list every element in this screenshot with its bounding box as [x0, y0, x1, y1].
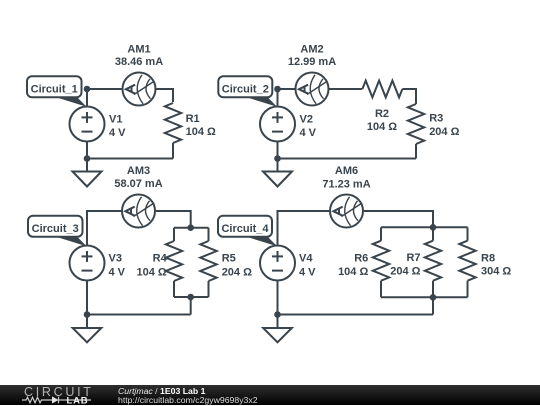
svg-text:104 Ω: 104 Ω: [136, 267, 166, 279]
svg-text:AM2: AM2: [300, 44, 323, 56]
resistor R6: [373, 241, 389, 281]
wire: R1 bottom lead: [172, 143, 174, 159]
ground: circuit 1: [73, 159, 102, 187]
svg-text:104 Ω: 104 Ω: [338, 266, 368, 278]
voltage source V4: [260, 246, 295, 281]
svg-text:AM6: AM6: [335, 165, 358, 177]
wire: C2 node down to V2 top: [277, 89, 279, 107]
wire: R5 bottom lead: [208, 281, 210, 297]
svg-text:LAB: LAB: [67, 396, 89, 405]
junction node: C3 bottom left: [84, 311, 91, 318]
ammeter AM3 A glyph: [126, 207, 135, 216]
svg-text:R6: R6: [354, 253, 368, 265]
svg-text:V1: V1: [109, 114, 122, 126]
wire: AM6 to parallel feed: [363, 211, 433, 227]
svg-text:R2: R2: [375, 108, 389, 120]
svg-text:204 Ω: 204 Ω: [390, 265, 420, 277]
wire: AM1 to R1 top corner: [156, 89, 174, 102]
svg-text:V3: V3: [109, 253, 122, 265]
ground: circuit 3: [73, 315, 102, 343]
svg-text:Circuit_4: Circuit_4: [221, 223, 269, 235]
wire: V3 bottom to bottom rail: [86, 281, 88, 315]
wire: C4 top-left corner to AM6: [278, 211, 331, 246]
ammeter AM6: [330, 195, 363, 228]
wire: C1 node down to V1 top: [86, 89, 88, 107]
svg-text:R7: R7: [406, 252, 420, 264]
svg-text:104 Ω: 104 Ω: [367, 121, 397, 133]
wire: AM3 to parallel feed: [155, 211, 191, 228]
junction node: C2 top: [274, 86, 281, 93]
wire: R6 bottom lead: [380, 281, 382, 298]
wire: C3 bottom rail: [87, 314, 191, 316]
resistor R3: [408, 104, 424, 144]
ammeter AM1 A glyph: [126, 85, 135, 94]
voltage source V2: [260, 107, 295, 142]
wire: AM2 to R2 left lead: [329, 88, 363, 90]
wire: R7 top lead: [432, 227, 434, 240]
wire: R7 bottom lead: [432, 281, 434, 298]
svg-text:R8: R8: [481, 253, 495, 265]
footer credit text: [118, 387, 258, 406]
wire: R4 bottom lead: [173, 281, 175, 297]
net flag Circuit_2: [218, 76, 277, 107]
wire: C1 top node to AM1: [87, 88, 123, 90]
resistor R2: [362, 81, 402, 98]
net flag Circuit_1: [27, 76, 87, 107]
junction node: C1 top: [84, 86, 91, 93]
junction node: C3 rail top: [187, 224, 194, 231]
junction node: C4 rail top: [430, 224, 437, 231]
resistor R1: [165, 103, 181, 143]
ground: circuit 4: [263, 315, 292, 343]
svg-text:4 V: 4 V: [109, 127, 126, 139]
svg-text:Circuit_3: Circuit_3: [32, 223, 79, 235]
svg-text:Circuit_2: Circuit_2: [222, 84, 269, 96]
svg-text:58.07 mA: 58.07 mA: [114, 178, 162, 190]
wire: R3 bottom lead: [415, 144, 417, 159]
svg-text:R3: R3: [429, 113, 443, 125]
ammeter AM2: [296, 73, 329, 106]
wire: C4 parallel bottom rail: [381, 296, 468, 298]
svg-text:12.99 mA: 12.99 mA: [288, 56, 336, 68]
wire: C4 feed down to bottom wire: [432, 297, 434, 314]
footer bar: [0, 385, 540, 405]
wire: C3 parallel top rail: [174, 227, 209, 229]
wire: R8 bottom lead: [467, 281, 469, 298]
svg-text:204 Ω: 204 Ω: [429, 126, 459, 138]
net flag Circuit_3: [28, 216, 87, 247]
wire: V1 bottom to bottom rail: [86, 142, 88, 159]
junction node: C3 rail bottom: [187, 294, 194, 301]
wire: C2 bottom rail: [278, 158, 417, 160]
svg-text:V4: V4: [299, 253, 313, 265]
CircuitLab logo: [18, 385, 118, 405]
svg-text:4 V: 4 V: [299, 267, 316, 279]
svg-text:AM1: AM1: [127, 44, 150, 56]
wire: C4 bottom rail: [278, 314, 434, 316]
svg-text:R5: R5: [222, 253, 236, 265]
resistor R5: [200, 241, 216, 281]
voltage source V1: [70, 107, 105, 142]
svg-text:104 Ω: 104 Ω: [186, 126, 216, 138]
wire: C2 top node to AM2: [278, 88, 296, 90]
svg-text:AM3: AM3: [127, 165, 150, 177]
svg-text:4 V: 4 V: [300, 127, 317, 139]
svg-text:38.46 mA: 38.46 mA: [115, 56, 163, 68]
svg-text:204 Ω: 204 Ω: [222, 267, 252, 279]
resistor R7: [425, 241, 441, 281]
wire: V2 bottom to bottom rail: [277, 142, 279, 159]
wire: C3 feed down to bottom wire: [190, 297, 192, 315]
wire: C4 parallel top rail: [381, 226, 468, 228]
wire: C1 bottom rail: [87, 158, 173, 160]
svg-text:R4: R4: [153, 253, 168, 265]
wire: C3 parallel bottom rail: [174, 296, 209, 298]
net flag Circuit_4: [218, 216, 277, 247]
junction node: C4 bottom left: [274, 311, 281, 318]
ammeter AM2 A glyph: [299, 85, 308, 94]
svg-text:V2: V2: [300, 114, 313, 126]
ground: circuit 2: [263, 159, 292, 187]
ammeter AM3: [122, 195, 155, 228]
wire: R4 top lead: [173, 228, 175, 241]
svg-text:R1: R1: [186, 113, 200, 125]
junction node: C1 bottom: [84, 155, 91, 162]
svg-text:Circuit_1: Circuit_1: [31, 84, 78, 96]
svg-text:71.23 mA: 71.23 mA: [322, 179, 370, 191]
junction node: C4 rail bottom: [430, 294, 437, 301]
svg-text:4 V: 4 V: [109, 267, 126, 279]
wire: V4 bottom to bottom rail: [277, 281, 279, 315]
wire: R8 top lead: [467, 227, 469, 240]
resistor R8: [459, 241, 475, 281]
voltage source V3: [70, 246, 105, 281]
wire: C3 top-left corner to AM3: [87, 211, 122, 246]
ammeter AM1: [123, 73, 156, 106]
svg-text:304 Ω: 304 Ω: [481, 266, 511, 278]
resistor R4: [166, 241, 182, 281]
junction node: C2 bottom: [274, 155, 281, 162]
wire: R5 top lead: [208, 228, 210, 241]
ammeter AM6 A glyph: [334, 207, 343, 216]
wire: R2 to R3 top corner: [402, 89, 416, 104]
wire: R6 top lead: [380, 227, 382, 240]
